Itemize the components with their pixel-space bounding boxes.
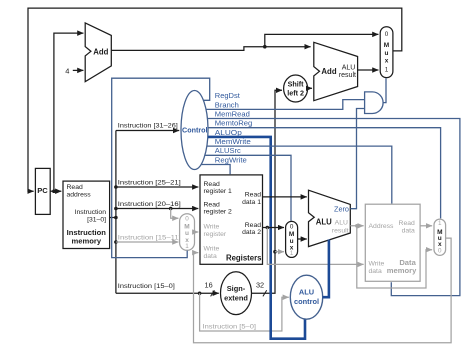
wire: branch adder output to PCSrc mux input 1 (358, 69, 379, 71)
svg-text:Instruction [15–0]: Instruction [15–0] (118, 283, 175, 290)
svg-text:Write: Write (204, 245, 220, 252)
node: read data 2 junction (266, 226, 270, 230)
svg-text:control: control (294, 297, 319, 306)
svg-text:left 2: left 2 (287, 89, 304, 98)
instruction memory (63, 181, 110, 248)
svg-text:Read: Read (204, 181, 220, 188)
shift left 2 unit (284, 75, 308, 102)
wire: Instruction [31-26] to Control (116, 123, 179, 131)
constant 4 input (65, 67, 83, 76)
svg-text:Instruction [15–11]: Instruction [15–11] (118, 234, 181, 241)
svg-text:1: 1 (438, 220, 442, 227)
node: junction 20-16 to RegDst mux (169, 207, 173, 211)
svg-text:Instruction [31–26]: Instruction [31–26] (118, 123, 178, 130)
svg-text:1: 1 (385, 67, 389, 74)
control signal MemWrite to data memory top (207, 137, 392, 204)
svg-text:register 1: register 1 (204, 188, 233, 195)
svg-text:Write: Write (204, 224, 220, 231)
svg-text:0: 0 (290, 224, 294, 231)
control signal Branch to AND gate (206, 100, 364, 110)
svg-text:32: 32 (256, 280, 264, 289)
wire: data memory read data to MemtoReg mux input 1 (gray) (420, 225, 432, 227)
svg-text:Read: Read (245, 192, 261, 199)
node: PC output junction (52, 189, 56, 193)
wire: Instruction [5-0] funct to ALU control (gray) (200, 293, 289, 331)
svg-text:Write: Write (369, 261, 385, 268)
svg-text:ALUSrc: ALUSrc (215, 146, 241, 155)
svg-text:data 1: data 1 (242, 199, 261, 206)
svg-text:u: u (385, 50, 389, 57)
wire: instruction memory output stub to instruction bus (110, 217, 116, 219)
svg-text:4: 4 (65, 67, 69, 76)
control signal RegWrite to registers (201, 155, 246, 174)
node: bus junction 20-16 (114, 207, 118, 211)
node: PC+4 junction (263, 45, 267, 49)
svg-text:[31–0]: [31–0] (87, 217, 106, 224)
svg-text:MemtoReg: MemtoReg (215, 119, 253, 128)
adder U2 Add (branch target, ALU result) (314, 42, 358, 100)
svg-text:ALU: ALU (299, 288, 314, 297)
svg-text:Read: Read (204, 201, 220, 208)
wire: Instruction [20-16] to read register 2 (116, 201, 198, 209)
svg-text:register 2: register 2 (204, 209, 233, 216)
wire: Instruction [25-21] to read register 1 (116, 179, 198, 187)
ALU control unit (290, 275, 322, 319)
svg-text:register: register (204, 231, 227, 238)
wire: ALU Zero output to AND gate (350, 109, 364, 209)
wire: Instruction [15-0] to sign extend (116, 283, 219, 293)
svg-text:Branch: Branch (215, 100, 239, 109)
wire: PCSrc mux output loop back to PC (top frame) (28, 8, 402, 191)
AND gate (branch taken) (365, 92, 384, 114)
wire: shift left 2 to branch adder bottom input (308, 87, 312, 89)
wire: AND gate output to PCSrc mux select (383, 78, 386, 102)
svg-text:Read: Read (399, 220, 415, 227)
svg-text:ALUOp: ALUOp (215, 128, 242, 137)
node: bus junction 15-11 (114, 240, 118, 244)
svg-text:x: x (385, 57, 389, 64)
svg-text:Sign-: Sign- (227, 284, 246, 293)
node: junction sign-extend output to ALUSrc mux (273, 250, 277, 254)
svg-text:M: M (384, 42, 389, 49)
svg-text:Instruction [5–0]: Instruction [5–0] (203, 323, 257, 330)
mux PCSrc (top right) (380, 27, 393, 78)
wire: PC to instruction memory read address (50, 190, 61, 192)
wire: RegDst mux output to write register (gray) (195, 231, 199, 233)
svg-text:Read: Read (67, 184, 83, 191)
registers (register file) (200, 175, 263, 264)
wire: ALU control to ALU operation input (active thick) (323, 240, 329, 298)
control signal ALUOp to ALU control (active thick) (208, 128, 305, 339)
mux MemtoReg (gray) (434, 219, 446, 255)
label: 16-bit width marker (205, 280, 215, 296)
control signal MemtoReg to MemtoReg mux select (208, 119, 441, 219)
svg-text:memory: memory (387, 266, 417, 275)
wire: read data 2 to data memory write data (gray) (267, 228, 363, 265)
svg-text:0: 0 (185, 216, 189, 223)
svg-text:extend: extend (224, 294, 248, 303)
wire: PC+4 result to branch adder (111, 47, 310, 51)
svg-text:Address: Address (369, 223, 395, 230)
svg-text:Control: Control (182, 126, 208, 135)
PC register (35, 168, 50, 214)
control unit (181, 91, 208, 170)
label: 32-bit width marker (256, 280, 267, 296)
svg-text:RegDst: RegDst (215, 91, 241, 100)
svg-text:Add: Add (93, 48, 108, 57)
wire: sign extend to ALUSrc mux input 1 (gray) (275, 251, 284, 253)
svg-text:Zero: Zero (334, 204, 349, 213)
svg-text:result: result (332, 227, 349, 234)
control signal ALUSrc to ALUSrc mux select (205, 146, 291, 221)
svg-text:16: 16 (205, 280, 213, 289)
wire: PC up to Add (PC+4) top input (54, 33, 84, 191)
wire: ALU result to data memory address (gray) (350, 225, 363, 227)
svg-text:RegWrite: RegWrite (215, 155, 247, 164)
svg-text:ALU: ALU (316, 217, 332, 226)
sign extend unit (221, 272, 252, 315)
wire: Instruction [15-11] to RegDst mux input 1 (gray) (116, 234, 181, 242)
wire: Instruction 20-16 branch to RegDst mux input 0 (gray) (171, 209, 179, 219)
wire: PC+4 to PCSrc mux input 0 (265, 34, 379, 46)
wire: instruction bus vertical (115, 131, 117, 294)
mux ALUSrc (286, 221, 298, 257)
node: junction 15-0 to funct field (198, 292, 202, 296)
svg-text:ALU: ALU (342, 65, 356, 72)
svg-text:ALU: ALU (335, 220, 348, 227)
svg-text:PC: PC (37, 186, 48, 195)
svg-text:MemWrite: MemWrite (215, 137, 251, 146)
svg-text:Add: Add (321, 67, 336, 76)
data memory (gray, inactive) (365, 204, 420, 281)
svg-text:Shift: Shift (288, 80, 305, 89)
svg-text:Registers: Registers (226, 254, 262, 263)
control signal RegDst (wraps left to RegDst mux select) (112, 78, 241, 257)
node: bus junction 25-21 (114, 185, 118, 189)
svg-text:data: data (369, 268, 382, 275)
wire: sign extend output riser to shift left 2 (252, 90, 283, 293)
svg-text:1: 1 (290, 250, 294, 257)
svg-text:data: data (204, 253, 217, 260)
wire: MemtoReg mux output wrap to registers write data (gray) (194, 238, 452, 343)
node: ALU result junction (gray) (355, 224, 359, 228)
svg-text:0: 0 (385, 31, 389, 38)
svg-text:0: 0 (438, 247, 442, 254)
svg-text:Read: Read (245, 222, 261, 229)
svg-text:data 2: data 2 (242, 229, 261, 236)
adder U1 Add (PC+4) (85, 23, 111, 82)
svg-text:Instruction [20–16]: Instruction [20–16] (118, 201, 181, 208)
wire: ALUSrc mux output to ALU bottom input (298, 238, 307, 240)
svg-text:result: result (339, 72, 356, 79)
mux RegDst (gray) (180, 214, 195, 251)
svg-text:memory: memory (72, 236, 102, 245)
control signal MemRead to data memory bottom (208, 109, 460, 295)
svg-text:MemRead: MemRead (215, 109, 250, 118)
wire: read data 1 to ALU top input (263, 196, 307, 198)
node: bus junction instr out (114, 216, 118, 220)
svg-text:address: address (67, 191, 92, 198)
wire: read data 2 to ALUSrc mux input 0 (263, 227, 285, 229)
svg-text:data: data (402, 228, 415, 235)
svg-text:Instruction: Instruction (75, 209, 107, 216)
ALU (309, 190, 351, 246)
svg-text:1: 1 (185, 243, 189, 250)
svg-text:Instruction [25–21]: Instruction [25–21] (118, 179, 181, 186)
wire: ALU result wrap under memory to MemtoReg mux input 0 (gray) (357, 226, 432, 288)
